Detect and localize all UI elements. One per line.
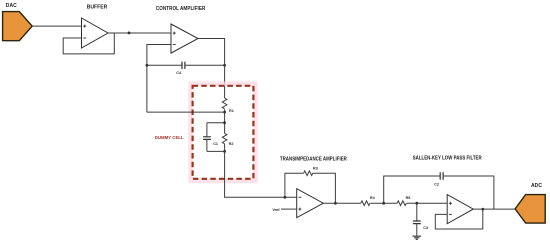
svg-text:R2: R2 [229, 142, 234, 146]
node buffer output [128, 32, 131, 35]
node SK output [481, 208, 484, 211]
node parallel bottom [223, 150, 226, 153]
svg-text:R1: R1 [229, 109, 234, 113]
resistor R3 feedback [285, 167, 336, 204]
svg-text:C1: C1 [213, 142, 218, 146]
op-amp U4 sallen-key [413, 155, 482, 223]
wire control amp inverting input to feedback column [147, 45, 171, 113]
svg-text:C3: C3 [423, 226, 428, 230]
wire R1 to node [224, 109, 226, 122]
Vref input [272, 208, 296, 212]
wire parallel top [207, 122, 225, 124]
resistor R1 [222, 98, 234, 113]
capacitor C2 feedback [384, 172, 494, 209]
wire TIA output to R4 [323, 202, 361, 204]
svg-text:TRANSIMPEDANCE AMPLIFIER: TRANSIMPEDANCE AMPLIFIER [280, 156, 347, 162]
op-amp U2 control amplifier [156, 6, 206, 53]
wire feedback tap to left column [147, 111, 225, 113]
svg-text:DUMMY CELL: DUMMY CELL [155, 135, 184, 141]
resistor R2 [222, 123, 233, 152]
capacitor C1 [203, 123, 218, 152]
svg-text:SALLEN-KEY LOW PASS FILTER: SALLEN-KEY LOW PASS FILTER [413, 155, 482, 161]
wire R4 to node A [370, 202, 397, 204]
svg-text:BUFFER: BUFFER [87, 4, 108, 10]
node TIA output [334, 202, 337, 205]
capacitor C4 [147, 62, 225, 76]
wire parallel bottom [207, 150, 225, 152]
DAC block [3, 3, 33, 41]
svg-text:CONTROL AMPLIFIER: CONTROL AMPLIFIER [156, 6, 206, 12]
node A [382, 202, 385, 205]
svg-text:DAC: DAC [6, 3, 17, 9]
node C4 right [223, 64, 226, 67]
wire buffer output to control amplifier [108, 32, 171, 34]
node B [415, 202, 418, 205]
node TIA inverting input [284, 196, 287, 199]
node C4 left [146, 64, 149, 67]
ground [413, 236, 422, 239]
ADC block [515, 183, 545, 223]
resistor R5 [397, 196, 410, 205]
wire dummy cell to transimpedance input [225, 151, 297, 197]
svg-text:ADC: ADC [531, 183, 542, 189]
svg-text:R3: R3 [313, 167, 318, 171]
capacitor C3 to ground [413, 203, 428, 236]
wire control amp output down [198, 39, 225, 99]
svg-text:R5: R5 [406, 196, 411, 200]
wire SK output to ADC [472, 208, 515, 210]
svg-text:Vref: Vref [272, 208, 280, 212]
wire R5 to SK op-amp [407, 202, 448, 204]
resistor R4 [361, 196, 376, 205]
wire buffer feedback [63, 33, 114, 54]
dummy cell pink halo [191, 84, 256, 181]
dummy cell dashed box [193, 86, 254, 179]
wire DAC to buffer [32, 25, 81, 27]
node parallel top [223, 121, 226, 124]
svg-text:C2: C2 [434, 183, 439, 187]
op-amp U1 buffer [82, 4, 109, 48]
op-amp U3 transimpedance amplifier [280, 156, 347, 217]
wire SK feedback [435, 209, 483, 229]
node feedback tap [223, 111, 226, 114]
